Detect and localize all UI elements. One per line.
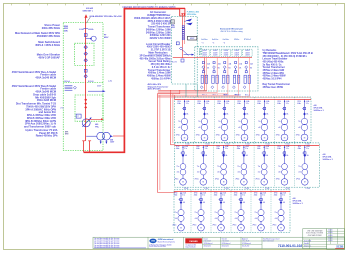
svg-text:3.5x: 3.5x xyxy=(186,103,189,105)
collector link above MCC bus xyxy=(157,96,311,98)
title block vertical dividers xyxy=(148,237,303,248)
svg-text:3.5x: 3.5x xyxy=(306,148,309,150)
lighting MCC feeder column F6 xyxy=(271,190,286,233)
svg-text:xP50x: xP50x xyxy=(276,134,280,136)
vent MCC feeder column F7 xyxy=(295,143,310,187)
svg-text:SCSB: SCSB xyxy=(336,245,343,249)
interlock arrows xyxy=(186,19,192,22)
svg-text:T5x: T5x xyxy=(217,166,220,168)
MCC group enclosure xyxy=(195,47,258,91)
svg-text:6x0Vac: 6x0Vac xyxy=(201,39,208,41)
svg-text:xP50x: xP50x xyxy=(252,225,256,227)
svg-text:1P30: 1P30 xyxy=(257,101,261,103)
lighting MCC enclosure xyxy=(174,190,290,233)
svg-text:xP50x: xP50x xyxy=(174,179,178,181)
svg-text:1P30: 1P30 xyxy=(254,193,258,195)
220V MCC feeder column F3 xyxy=(215,97,230,142)
svg-text:x50kW: x50kW xyxy=(224,54,229,56)
svg-text:3.5x: 3.5x xyxy=(242,195,245,197)
svg-text:x50kW: x50kW xyxy=(202,52,207,54)
incoming generator arrow xyxy=(84,14,87,18)
svg-text:x50: x50 xyxy=(217,172,220,174)
svg-text:3.5x: 3.5x xyxy=(182,195,185,197)
transformer drop arrows xyxy=(100,142,102,145)
vent MCC feeder column F5 xyxy=(254,143,269,187)
svg-text:6x0Vac: 6x0Vac xyxy=(223,39,230,41)
svg-text:xP50x: xP50x xyxy=(255,179,259,181)
changeover switch (slashed circle) xyxy=(82,119,90,127)
svg-text:SP-50 kVA: SP-50 kVA xyxy=(293,200,303,203)
tie disconnect xyxy=(180,47,183,50)
svg-text:3.5x: 3.5x xyxy=(262,195,265,197)
svg-text:0 45-45: 0 45-45 xyxy=(328,237,333,239)
svg-text:450V: 450V xyxy=(104,36,109,39)
svg-text:x50kW: x50kW xyxy=(224,50,229,52)
svg-text:Checkd: Checkd xyxy=(222,238,227,240)
svg-text:450-45-450: 450-45-450 xyxy=(204,245,211,247)
svg-text:1P30: 1P30 xyxy=(197,101,201,103)
svg-text:3PH 60Hz: 3PH 60Hz xyxy=(187,14,196,16)
svg-text:1P30: 1P30 xyxy=(217,101,221,103)
starter column S3 xyxy=(221,49,231,96)
svg-text:220/3V 4.5/3 450W: 220/3V 4.5/3 450W xyxy=(150,37,172,40)
drawout contact stack xyxy=(182,26,184,40)
svg-text:14 Harbour Road Singapore 4504: 14 Harbour Road Singapore 450450 xyxy=(149,244,172,246)
svg-text:x50: x50 xyxy=(198,127,201,129)
svg-text:BUS-A: BUS-A xyxy=(64,80,70,83)
svg-text:xP50x: xP50x xyxy=(232,225,236,227)
tie disconnect diamond xyxy=(73,86,76,89)
svg-text:1P30: 1P30 xyxy=(234,193,238,195)
svg-text:60Hz: 60Hz xyxy=(64,30,68,32)
svg-text:450V-3 3P 1600AF: 450V-3 3P 1600AF xyxy=(38,55,60,59)
drawout breaker cell box upper xyxy=(75,43,95,65)
svg-text:x50: x50 xyxy=(258,172,261,174)
svg-text:T5x: T5x xyxy=(214,212,217,214)
svg-text:xP50x: xP50x xyxy=(215,179,219,181)
svg-text:3.5x: 3.5x xyxy=(286,148,289,150)
feeder drawout breaker (red wedges) xyxy=(84,98,87,108)
svg-text:T5x: T5x xyxy=(174,212,177,214)
svg-text:x50kW: x50kW xyxy=(202,54,207,56)
svg-text:xP50x: xP50x xyxy=(216,134,220,136)
svg-text:1P30: 1P30 xyxy=(237,101,241,103)
svg-text:T5x: T5x xyxy=(278,166,281,168)
svg-text:Dwg chk 450-45: Dwg chk 450-45 xyxy=(186,246,196,248)
svg-text:M1: M1 xyxy=(239,68,241,70)
cable loop below switchboard xyxy=(83,141,85,152)
svg-text:xP50x: xP50x xyxy=(172,225,176,227)
svg-text:SCSB dwg ref: SCSB dwg ref xyxy=(242,243,251,245)
svg-text:450V 3Ph 60Hz: 450V 3Ph 60Hz xyxy=(148,88,161,91)
svg-text:3.5x: 3.5x xyxy=(246,103,249,105)
feeder to panel (red) xyxy=(86,118,101,120)
svg-text:x50: x50 xyxy=(278,172,281,174)
svg-text:x50kW: x50kW xyxy=(245,54,250,56)
svg-text:BUS-B: BUS-B xyxy=(88,81,94,83)
svg-text:200A 3PH 60Hz: 200A 3PH 60Hz xyxy=(42,26,61,30)
collector bus y95.2 xyxy=(173,95,175,99)
riser to vent MCC xyxy=(170,90,172,145)
svg-text:1P30: 1P30 xyxy=(194,193,198,195)
svg-text:3x50Vac x 3: 3x50Vac x 3 xyxy=(314,110,324,112)
svg-text:3.5x: 3.5x xyxy=(202,195,205,197)
svg-text:3.5x: 3.5x xyxy=(286,103,289,105)
starter column S2 xyxy=(211,49,221,96)
svg-text:6x0Vac: 6x0Vac xyxy=(212,39,219,41)
svg-text:x50kW: x50kW xyxy=(245,50,250,52)
svg-text:0 45-45: 0 45-45 xyxy=(328,230,333,232)
svg-text:T5x: T5x xyxy=(298,121,301,123)
svg-text:T5x: T5x xyxy=(197,166,200,168)
svg-text:x50: x50 xyxy=(237,172,240,174)
title block outline xyxy=(93,237,345,248)
220V MCC bottom labels xyxy=(185,143,309,145)
svg-text:MXP: MXP xyxy=(190,38,195,40)
svg-text:M1: M1 xyxy=(218,68,220,70)
svg-text:SCSB dwg ref: SCSB dwg ref xyxy=(204,243,213,245)
svg-text:1P30: 1P30 xyxy=(177,101,181,103)
lighting MCC feeder column F5 xyxy=(251,190,266,233)
svg-text:T5x: T5x xyxy=(178,121,181,123)
disconnect diamond xyxy=(84,75,87,78)
svg-text:3.5x: 3.5x xyxy=(225,148,228,150)
svg-text:* 6: * 6 xyxy=(201,42,203,44)
svg-text:T5x: T5x xyxy=(238,121,241,123)
svg-text:kWh: kWh xyxy=(171,25,174,27)
svg-text:7110-001-01-102: 7110-001-01-102 xyxy=(278,244,303,248)
starter column S1 xyxy=(200,49,210,96)
meter box xyxy=(171,20,175,24)
svg-text:GEN SET x: GEN SET x xyxy=(83,10,94,12)
svg-text:3.5x: 3.5x xyxy=(306,103,309,105)
svg-text:T5x: T5x xyxy=(258,166,261,168)
distribution transformer T-1 xyxy=(97,132,105,140)
220V MCC feeder column F6 xyxy=(275,97,290,142)
notes cell tiny text xyxy=(94,237,146,249)
svg-text:SP-50 kVA: SP-50 kVA xyxy=(323,156,333,159)
svg-text:x50kW: x50kW xyxy=(234,50,239,52)
svg-text:3.5x: 3.5x xyxy=(205,148,208,150)
sign cell splits xyxy=(203,240,303,242)
svg-text:* 6: * 6 xyxy=(223,42,225,44)
emergency switchboard enclosure xyxy=(172,16,198,84)
panel label box xyxy=(188,36,197,40)
svg-text:1P30: 1P30 xyxy=(274,193,278,195)
lighting MCC feeder column F1 xyxy=(172,192,185,232)
svg-text:T5x: T5x xyxy=(234,212,237,214)
svg-text:x50kW: x50kW xyxy=(213,54,218,56)
svg-text:3x50Vac x 3: 3x50Vac x 3 xyxy=(323,159,333,161)
svg-text:450Vac 10.5 IP44: 450Vac 10.5 IP44 xyxy=(263,77,283,80)
svg-text:xP50x: xP50x xyxy=(192,225,196,227)
feeder list tick stack xyxy=(65,85,73,90)
main switchboard enclosure (dashed) xyxy=(63,23,103,151)
svg-text:T5x: T5x xyxy=(237,166,240,168)
220V MCC feeder column F5 xyxy=(255,97,270,142)
svg-text:IPV/6x1: IPV/6x1 xyxy=(244,39,252,41)
svg-text:0 45-45: 0 45-45 xyxy=(328,232,333,234)
svg-text:xP50x: xP50x xyxy=(256,134,260,136)
svg-text:* 6: * 6 xyxy=(212,42,214,44)
svg-text:x50: x50 xyxy=(278,127,281,129)
svg-text:P-106: P-106 xyxy=(306,188,310,190)
svg-text:xP50x: xP50x xyxy=(296,179,300,181)
long riser to lighting MCC xyxy=(156,94,158,193)
svg-text:x50: x50 xyxy=(178,127,181,129)
starter column S4 xyxy=(232,49,242,96)
svg-text:x50: x50 xyxy=(195,218,198,220)
switchboard section divider xyxy=(63,82,103,84)
swbd riser teal left xyxy=(185,84,187,97)
svg-text:0 45-45: 0 45-45 xyxy=(328,235,333,237)
transformer feeder cell box lower xyxy=(75,95,103,121)
vent MCC bus (red) xyxy=(175,144,320,146)
svg-text:xP50x: xP50x xyxy=(236,134,240,136)
lower aux device xyxy=(181,59,184,62)
svg-text:x50kW: x50kW xyxy=(202,50,207,52)
svg-text:1P30: 1P30 xyxy=(214,193,218,195)
svg-text:IPV/6x1: IPV/6x1 xyxy=(235,94,241,96)
lighting MCC feeder column F4 xyxy=(231,190,246,233)
svg-text:1P30: 1P30 xyxy=(237,146,241,148)
svg-text:xP50x: xP50x xyxy=(212,225,216,227)
svg-text:1P30: 1P30 xyxy=(257,146,261,148)
svg-text:450Vac 10.4 IP44: 450Vac 10.4 IP44 xyxy=(151,77,171,80)
header phase marks xyxy=(201,42,225,44)
swbd riser teal right xyxy=(196,84,198,97)
svg-text:xP50x: xP50x xyxy=(196,134,200,136)
feeder bus to MCC group (red) xyxy=(173,57,252,59)
frame zone tick marks top xyxy=(12,4,336,6)
thick red feeder cable run xyxy=(84,9,185,153)
svg-text:x50: x50 xyxy=(255,218,258,220)
bus entry arrows xyxy=(181,13,183,16)
svg-text:450A 3x240 MCM: 450A 3x240 MCM xyxy=(35,76,56,80)
MCC group column header labels xyxy=(201,39,252,41)
outgoing arrow xyxy=(184,54,192,56)
svg-text:x50: x50 xyxy=(175,218,178,220)
svg-text:T5x: T5x xyxy=(278,121,281,123)
svg-text:T5x: T5x xyxy=(198,121,201,123)
title cell (raised) xyxy=(303,229,327,249)
vent MCC enclosure xyxy=(175,143,320,187)
svg-text:Cls approval 450: Cls approval 450 xyxy=(186,245,197,247)
svg-text:3.5x: 3.5x xyxy=(266,103,269,105)
svg-text:xP50x: xP50x xyxy=(272,225,276,227)
220V MCC feeder column F2 xyxy=(195,97,210,142)
svg-text:Estimated kW total pwr: Estimated kW total pwr xyxy=(220,27,243,30)
svg-text:x50: x50 xyxy=(275,218,278,220)
svg-text:1P30: 1P30 xyxy=(298,146,302,148)
svg-text:x50: x50 xyxy=(298,172,301,174)
svg-text:GKM International: GKM International xyxy=(158,238,174,241)
svg-text:xP50x: xP50x xyxy=(235,179,239,181)
svg-text:xP50x: xP50x xyxy=(276,179,280,181)
svg-text:x50: x50 xyxy=(298,127,301,129)
svg-text:T5x: T5x xyxy=(258,121,261,123)
vent MCC feeder column F1 xyxy=(174,145,187,185)
outgoing feeder arrow 480V xyxy=(88,90,103,92)
svg-text:SP2: SP2 xyxy=(65,134,68,136)
emergency bus (red) xyxy=(181,16,183,58)
svg-text:3.5x: 3.5x xyxy=(266,148,269,150)
svg-text:x50: x50 xyxy=(197,172,200,174)
current transformer CT1 xyxy=(84,34,87,37)
revision table xyxy=(327,229,345,250)
svg-text:x50: x50 xyxy=(218,127,221,129)
GKM logo xyxy=(149,239,156,244)
svg-text:xP50x: xP50x xyxy=(176,134,180,136)
feeder riser stub to emergency swbd xyxy=(180,9,185,16)
svg-text:x50: x50 xyxy=(177,172,180,174)
current transformer CT2 xyxy=(76,114,81,118)
svg-text:MV6x: MV6x xyxy=(224,94,228,96)
svg-text:MV6x: MV6x xyxy=(234,39,239,41)
vent MCC feeder column F2 xyxy=(193,143,208,187)
svg-text:T5x: T5x xyxy=(176,166,179,168)
svg-text:T5x: T5x xyxy=(254,212,257,214)
breaker aux contact xyxy=(84,69,87,72)
220V MCC feeder column F7 xyxy=(295,97,310,142)
svg-text:1P30: 1P30 xyxy=(196,146,200,148)
svg-text:T5x: T5x xyxy=(298,166,301,168)
generator lead diagonal xyxy=(86,17,90,23)
svg-text:450V-3 / 450V-3 60Hz: 450V-3 / 450V-3 60Hz xyxy=(35,43,61,47)
svg-text:3.5x: 3.5x xyxy=(206,103,209,105)
220V MCC enclosure xyxy=(174,97,311,142)
svg-text:SCSB dwg ref: SCSB dwg ref xyxy=(222,243,231,245)
lighting MCC bus (red) xyxy=(174,191,290,193)
svg-text:T5x: T5x xyxy=(218,121,221,123)
starter column S5 xyxy=(243,49,253,96)
drawout breaker CB-G1 (three contacts) xyxy=(84,45,87,62)
svg-text:x50kW: x50kW xyxy=(213,52,218,54)
vent MCC feeder column F6 xyxy=(274,143,289,187)
svg-text:T5x: T5x xyxy=(194,212,197,214)
collector bus y93.6 xyxy=(157,93,179,95)
svg-text:(+5): (+5) xyxy=(108,81,112,83)
svg-text:450A 3x95 MCM: 450A 3x95 MCM xyxy=(37,98,56,102)
svg-text:M1: M1 xyxy=(207,68,209,70)
svg-text:600A 450/450V 3PH 60Hz 3W x500: 600A 450/450V 3PH 60Hz 3W x500 xyxy=(90,15,123,18)
collector bus y90 xyxy=(158,90,207,92)
svg-text:x50kW: x50kW xyxy=(245,52,250,54)
svg-text:1P30: 1P30 xyxy=(277,146,281,148)
svg-text:M1: M1 xyxy=(250,68,252,70)
svg-text:x50kW: x50kW xyxy=(234,52,239,54)
svg-text:and Transformer 208V sub: and Transformer 208V sub xyxy=(24,125,56,129)
220V MCC bus (red) xyxy=(174,99,311,101)
svg-text:M1: M1 xyxy=(229,68,231,70)
svg-text:xP50x: xP50x xyxy=(195,179,199,181)
riser to 220V MCC xyxy=(204,58,206,91)
starter bottom collector staircase (red) xyxy=(158,58,250,97)
svg-text:x50: x50 xyxy=(235,218,238,220)
lighting MCC feeder column F3 xyxy=(211,190,226,233)
svg-text:x50kW: x50kW xyxy=(213,50,218,52)
svg-text:x50kW: x50kW xyxy=(224,52,229,54)
svg-text:3.5x: 3.5x xyxy=(282,195,285,197)
scale cell grid xyxy=(309,239,311,249)
vent MCC feeder column F4 xyxy=(234,143,249,187)
aux contact square xyxy=(176,42,179,45)
svg-text:1P30: 1P30 xyxy=(297,101,301,103)
svg-text:1P30: 1P30 xyxy=(216,146,220,148)
lighting MCC feeder column F2 xyxy=(191,190,206,233)
svg-text:450 W 3 & 4 60Hz rating: 450 W 3 & 4 60Hz rating xyxy=(220,30,242,33)
svg-text:3.5x: 3.5x xyxy=(222,195,225,197)
svg-text:x50: x50 xyxy=(238,127,241,129)
svg-text:3.5x: 3.5x xyxy=(226,103,229,105)
vent MCC bottom labels xyxy=(184,188,310,190)
svg-text:0 45-45: 0 45-45 xyxy=(328,240,333,242)
svg-text:(75): (75) xyxy=(60,107,64,109)
svg-text:1P30: 1P30 xyxy=(277,101,281,103)
svg-text:SP-50 kVA: SP-50 kVA xyxy=(314,107,324,110)
svg-text:Rated 450Vac 3Ph: Rated 450Vac 3Ph xyxy=(36,134,58,138)
svg-text:x50: x50 xyxy=(215,218,218,220)
svg-text:3x50Vac x 3: 3x50Vac x 3 xyxy=(293,203,303,205)
svg-text:3.5x: 3.5x xyxy=(184,148,187,150)
svg-text:450-45-450: 450-45-450 xyxy=(222,245,229,247)
svg-text:x50kW: x50kW xyxy=(234,54,239,56)
svg-text:x50: x50 xyxy=(258,127,261,129)
svg-text:E-LTG: E-LTG xyxy=(172,62,178,64)
svg-text:4000A: 4000A xyxy=(88,28,94,31)
vent MCC feeder column F3 xyxy=(213,143,228,187)
svg-text:3.5x: 3.5x xyxy=(245,148,248,150)
main 450V bus (red) xyxy=(85,17,87,141)
potential transformer PT1 xyxy=(86,38,91,40)
220V MCC feeder column F1 xyxy=(176,100,189,141)
svg-text:PASSED: PASSED xyxy=(189,240,198,243)
svg-text:1P30: 1P30 xyxy=(174,193,178,195)
svg-text:450Vac Gen 450W: 450Vac Gen 450W xyxy=(263,86,284,89)
svg-text:450/208V 3PH 60Hz: 450/208V 3PH 60Hz xyxy=(37,34,61,38)
transformer output to red feeder xyxy=(113,135,124,137)
svg-text:450-45-450: 450-45-450 xyxy=(242,245,249,247)
svg-text:1P30: 1P30 xyxy=(176,146,180,148)
approval stamp (red) xyxy=(185,238,202,243)
220V MCC feeder column F4 xyxy=(235,97,250,142)
svg-text:Tel 450 4500 Fax 450 4504: Tel 450 4500 Fax 450 4504 xyxy=(149,246,166,248)
svg-text:xP50x: xP50x xyxy=(296,134,300,136)
svg-text:T5x: T5x xyxy=(274,212,277,214)
